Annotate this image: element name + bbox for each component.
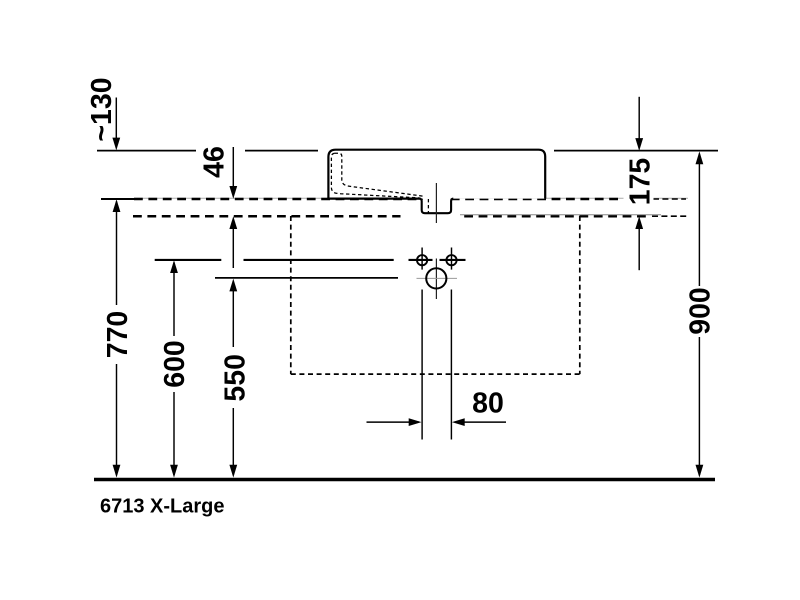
svg-text:46: 46: [199, 146, 231, 178]
dim ~130: [86, 77, 120, 150]
big circle thin crosshair: [417, 277, 458, 279]
wall/rim top line: [97, 150, 718, 152]
80-dim extension lines: [421, 290, 423, 440]
svg-text:900: 900: [684, 287, 716, 335]
svg-text:80: 80: [472, 387, 504, 419]
svg-text:550: 550: [220, 354, 252, 402]
dim 175: [624, 97, 657, 270]
dashed rectangle (console outline): [291, 216, 580, 374]
550-level line: [215, 277, 398, 279]
drain hole big circle: [426, 268, 446, 288]
dim 600: [159, 260, 191, 477]
dim 770: [102, 199, 134, 477]
extension line left of console top: [101, 198, 134, 200]
faucet hole left: [417, 255, 427, 265]
dim 550: [220, 279, 252, 478]
faucet hole vertical ticks: [421, 248, 423, 270]
drain pocket outline: [420, 199, 454, 214]
drain centerline: [435, 183, 437, 223]
600-level line: [155, 259, 466, 261]
washbasin outline: [328, 150, 545, 199]
faucet centerline: [435, 259, 437, 300]
svg-text:~130: ~130: [86, 77, 118, 141]
gap in lower dashed line under drain: [401, 213, 461, 219]
dim 900: [684, 151, 716, 477]
basin interior hidden contour (dashed): [331, 153, 428, 213]
console top faint surface line: [134, 197, 688, 199]
thin extension line at drain bottom level: [460, 214, 661, 216]
washbasin bottom edge (left of drain): [327, 198, 420, 200]
drain pocket fill: [423, 196, 450, 212]
console top dashed line: [134, 198, 650, 201]
svg-text:600: 600: [159, 340, 191, 388]
svg-text:770: 770: [102, 311, 134, 359]
washbasin body fill: [328, 150, 545, 199]
console bottom dashed line: [133, 215, 650, 218]
svg-text:6713 X-Large: 6713 X-Large: [100, 496, 225, 518]
svg-text:175: 175: [624, 158, 656, 206]
faucet hole right: [446, 255, 456, 265]
dim 80: [367, 387, 507, 426]
floor line: [94, 478, 715, 482]
dim 46: [199, 146, 238, 268]
